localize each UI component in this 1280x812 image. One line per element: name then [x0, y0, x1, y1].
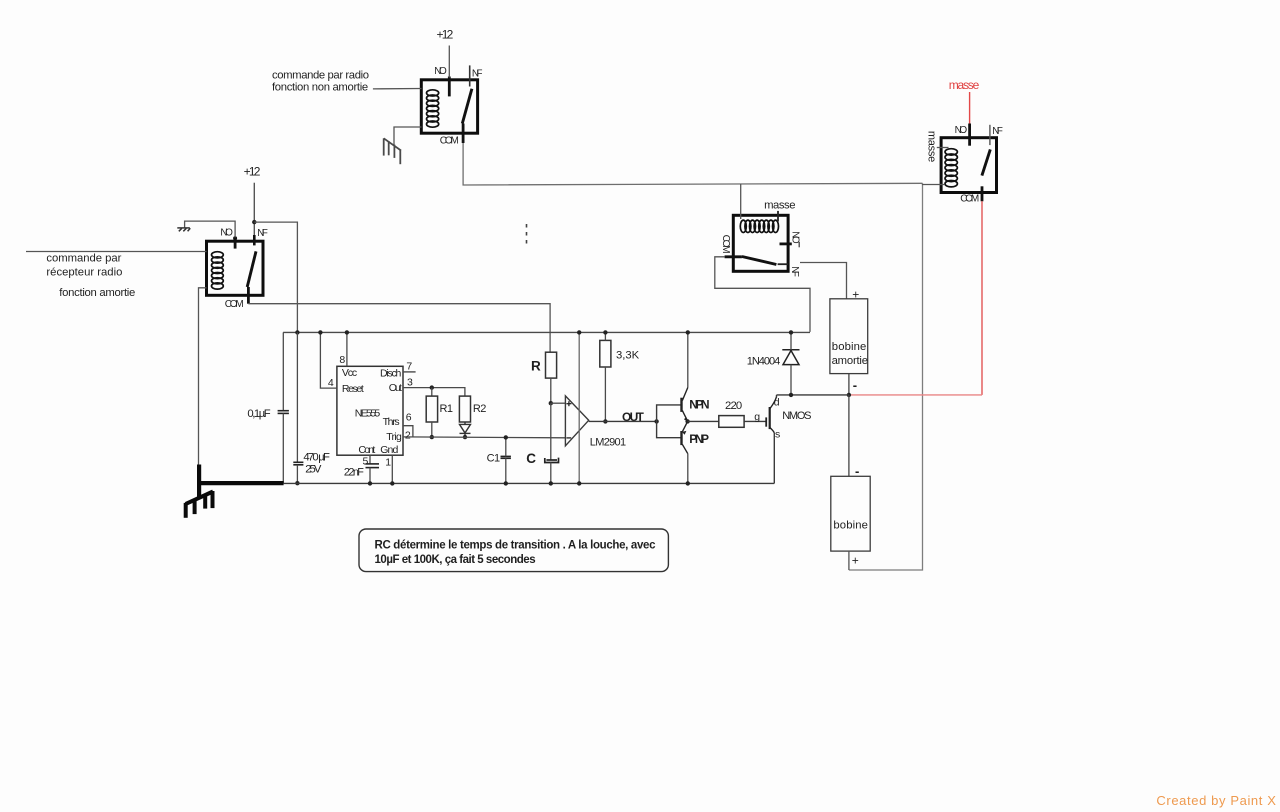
wire small ground to K1 NO: [185, 221, 236, 237]
wire C to ground rail: [550, 463, 552, 484]
wire top +12 rail: [283, 331, 810, 333]
wire R1 bottom: [431, 422, 433, 437]
svg-text:22nF: 22nF: [344, 466, 364, 478]
svg-text:220: 220: [725, 400, 742, 412]
svg-text:+: +: [852, 288, 859, 302]
wire PNP collector to ground rail: [687, 454, 689, 484]
wire drain horizontal: [777, 394, 849, 396]
svg-text:Thrs: Thrs: [383, 416, 400, 428]
wire commande radio to K2 coil: [373, 88, 422, 90]
svg-text:NE555: NE555: [355, 407, 381, 419]
svg-text:NMOS: NMOS: [782, 410, 811, 422]
svg-text:R1: R1: [440, 403, 454, 415]
transistor Q3 NMOS: [766, 397, 776, 433]
svg-text:C: C: [526, 451, 536, 466]
pin 2 wire Trig to comparator minus: [403, 436, 565, 439]
node dot C1 rail: [504, 481, 508, 485]
wire OUT: [589, 420, 657, 422]
diode D1 1N4004: [782, 350, 799, 365]
relay K1 coil: [212, 252, 224, 289]
wire diode bottom to drain: [790, 365, 792, 395]
wire 470uF branch: [296, 332, 298, 462]
wire vertical long right bus: [849, 183, 923, 570]
svg-text:6: 6: [406, 412, 412, 424]
node dot C1 trig: [504, 435, 508, 439]
wire NMOS drain up: [776, 395, 778, 397]
relay K2 coil: [427, 90, 439, 127]
wire bottom ground rail: [284, 482, 775, 484]
wire red horizontal to bobine amortie minus: [849, 394, 982, 396]
svg-text:Out: Out: [389, 382, 402, 394]
wire C1 bottom to rail: [505, 458, 507, 483]
node dot emitters: [685, 419, 689, 423]
pin 3 wire Out: [403, 388, 465, 397]
svg-text:10µF et 100K, ça fait 5 second: 10µF et 100K, ça fait 5 secondes: [375, 554, 536, 566]
thick ground feeder K1: [197, 465, 201, 498]
capacitor 22nF: [366, 464, 380, 468]
pin 7 stub Disch: [403, 371, 416, 373]
node dot 3,3K OUT: [603, 419, 607, 423]
capacitor C1: [501, 456, 511, 458]
wire bobine plus down to bus: [848, 551, 850, 570]
op-amp minus sign: [566, 437, 571, 439]
svg-text:masse: masse: [926, 131, 938, 162]
svg-text:2: 2: [405, 430, 411, 442]
diode below R2: [460, 422, 471, 437]
wire base bracket: [657, 405, 681, 438]
transistor Q1 NPN: [682, 388, 688, 421]
node dot pin4 rail: [318, 330, 322, 334]
svg-text:RC détermine le temps de trans: RC détermine le temps de transition . A …: [375, 540, 657, 552]
wire NPN collector to rail: [687, 331, 689, 387]
svg-text:Reset: Reset: [342, 383, 364, 395]
resistor R2: [459, 396, 470, 422]
wire emitters to 220: [688, 420, 719, 422]
IC NE555 box: [337, 366, 403, 455]
svg-text:Gnd: Gnd: [380, 444, 398, 456]
svg-text:7: 7: [406, 360, 412, 372]
svg-text:-: -: [853, 377, 857, 392]
wire plus node to opamp: [551, 402, 566, 404]
relay K2 NO terminal pin: [448, 77, 451, 97]
wire junction down to bobine minus: [848, 395, 850, 476]
wire bobine amortie minus to junction: [848, 374, 850, 395]
wire masse red to K4 NO: [969, 92, 971, 124]
svg-text:+12: +12: [437, 28, 454, 42]
relay K4 COM terminal pin: [981, 186, 984, 201]
ground (slanted) at K2: [384, 138, 401, 164]
svg-text:470 µF: 470 µF: [303, 451, 330, 463]
node dot diode drain: [789, 393, 793, 397]
node dot diode rail: [789, 330, 793, 334]
svg-text:fonction amortie: fonction amortie: [59, 287, 135, 299]
svg-text:1: 1: [385, 457, 391, 469]
relay K2 NF terminal pin: [469, 65, 471, 86]
svg-text:bobine: bobine: [833, 520, 868, 532]
svg-text:25V: 25V: [305, 463, 322, 475]
svg-text:g: g: [754, 411, 760, 423]
wire 470uF bottom: [296, 465, 298, 484]
node dot pin1 rail: [390, 481, 394, 485]
svg-text:COM: COM: [960, 193, 979, 204]
svg-text:LM2901: LM2901: [590, 437, 626, 449]
svg-text:3: 3: [407, 377, 413, 389]
wire commande recepteur to K1 coil: [26, 251, 207, 253]
op-amp U1 LM2901: [565, 396, 588, 446]
relay K2 switch: [462, 89, 472, 124]
svg-text:+12: +12: [244, 165, 261, 179]
pin 4 wire Reset: [320, 332, 337, 388]
wire +12 to K2 NO: [448, 46, 450, 78]
relay K3 switch: [742, 257, 777, 265]
relay K3 COM terminal pin: [725, 255, 742, 258]
wire 0,1uF bottom to ground rail: [282, 413, 284, 483]
capacitor 0,1uF: [278, 411, 289, 414]
relay K1 NO terminal pin: [234, 237, 237, 248]
resistor 220: [719, 416, 744, 428]
wire K2 coil to ground: [394, 127, 422, 145]
svg-text:Created by Paint X: Created by Paint X: [1156, 793, 1276, 808]
relay K4 NF terminal pin: [989, 125, 991, 145]
node dot pin8 rail: [345, 330, 349, 334]
node dot diode trig: [463, 435, 467, 439]
svg-text:COM: COM: [440, 136, 459, 147]
wire 0,1uF branch (rail left end down): [282, 332, 284, 410]
node dot out R1: [430, 385, 434, 389]
wire 3,3K top: [604, 332, 606, 340]
wire K1 COM to R top: [248, 304, 550, 353]
svg-text:Cont: Cont: [358, 444, 375, 456]
svg-text:Disch: Disch: [380, 367, 401, 379]
node dot R1 trig: [430, 435, 434, 439]
svg-text:masse: masse: [764, 200, 795, 212]
node dot K1 NO: [233, 236, 237, 240]
svg-text:NF: NF: [789, 266, 800, 277]
NPN emitter arrow: [684, 417, 688, 422]
ground symbol (big slanted): [186, 491, 213, 518]
svg-text:NO: NO: [220, 228, 233, 239]
relay K1 (left, fonction amortie): [207, 241, 264, 295]
pin 6 stub Thrs: [403, 426, 413, 437]
wire NMOS source down to rail: [773, 433, 775, 484]
pin 8 wire Vcc: [346, 332, 348, 366]
wire K3 COM down to +12 rail: [715, 257, 810, 332]
node dot +12 junction: [252, 220, 256, 224]
node dot PNP collector rail: [686, 481, 690, 485]
wire K1 coil bottom to ground: [199, 288, 207, 466]
relay K2 (top, fonction non amortie): [421, 80, 477, 133]
resistor R: [546, 352, 557, 378]
svg-text:NF: NF: [257, 228, 268, 239]
svg-text:fonction non amortie: fonction non amortie: [272, 82, 368, 94]
thick ground rail: [197, 481, 284, 485]
svg-text:s: s: [775, 429, 780, 441]
node dot bobine amortie junction: [847, 393, 851, 397]
relay K3 masse terminal pin: [777, 211, 779, 222]
stray mark (faint dashed): [526, 224, 528, 246]
svg-text:PNP: PNP: [689, 432, 709, 446]
svg-text:4: 4: [328, 377, 334, 389]
svg-text:commande par: commande par: [46, 252, 121, 264]
pin 5 wire Cont: [369, 455, 371, 464]
pin stub right of NO K3: [798, 242, 800, 248]
svg-text:NF: NF: [472, 68, 483, 79]
relay K3 coil (horizontal): [740, 220, 778, 232]
wire 220 to gate: [744, 420, 766, 422]
node dot OUT bracket: [654, 419, 658, 423]
wire 3,3K bottom to OUT: [604, 367, 606, 421]
svg-text:+: +: [852, 554, 859, 568]
svg-text:1N4004: 1N4004: [747, 355, 781, 367]
svg-text:OUT: OUT: [622, 410, 644, 424]
svg-text:Trig: Trig: [386, 431, 402, 443]
wire K4 coil bottom to left bus: [922, 184, 945, 186]
relay K4 switch: [982, 149, 990, 175]
svg-text:bobine: bobine: [832, 341, 867, 353]
node dot opamp V-: [577, 481, 581, 485]
wire red K4 COM down: [981, 201, 983, 395]
svg-text:masse: masse: [949, 78, 980, 92]
wire 22nF to ground rail: [369, 468, 371, 484]
resistor R1: [426, 396, 437, 422]
node dot rail x297: [295, 330, 299, 334]
svg-text:NO: NO: [955, 125, 968, 136]
node dot 3,3K rail: [603, 330, 607, 334]
svg-text:3,3K: 3,3K: [616, 349, 640, 361]
svg-text:COM: COM: [225, 299, 244, 310]
svg-text:NF: NF: [992, 126, 1003, 137]
node dot 22nF rail: [368, 481, 372, 485]
relay K4 (top right, masse): [941, 138, 996, 193]
PNP emitter arrow: [682, 431, 686, 435]
svg-text:C1: C1: [487, 453, 501, 465]
relay K3 (middle, masse): [733, 215, 788, 271]
svg-text:NO: NO: [434, 66, 447, 77]
node dot 470uF ground: [295, 481, 299, 485]
svg-text:R2: R2: [473, 403, 487, 415]
wire C1 top to trig line: [505, 437, 507, 456]
node dot plus input: [549, 401, 553, 405]
svg-text:récepteur radio: récepteur radio: [46, 266, 122, 278]
wire K2 COM long run to right: [463, 143, 922, 185]
small ground at K1: [177, 228, 190, 231]
node dot NPN collector rail: [686, 330, 690, 334]
capacitor 470uF: [293, 462, 303, 465]
wire R1 top stub: [431, 388, 433, 397]
wire drop from COM run into K3 coil: [740, 184, 742, 219]
svg-text:8: 8: [339, 354, 345, 366]
relay K4 coil: [945, 149, 957, 187]
wire op-amp power vertical: [578, 332, 580, 483]
bobine amortie box: [830, 299, 868, 374]
svg-text:amortie: amortie: [832, 355, 868, 367]
RC note box: [359, 529, 668, 572]
node dot C rail: [549, 481, 553, 485]
svg-text:-: -: [855, 463, 859, 478]
svg-text:commande par radio: commande par radio: [272, 70, 369, 82]
relay K3 NO terminal pin: [780, 242, 792, 245]
relay K1 COM terminal pin: [247, 287, 250, 304]
relay K2 COM terminal pin: [462, 124, 465, 144]
svg-text:Vcc: Vcc: [342, 367, 357, 379]
relay K1 NF terminal pin: [253, 183, 255, 236]
svg-text:NPN: NPN: [689, 397, 709, 411]
transistor Q2 PNP: [682, 421, 688, 453]
pin 1 wire Gnd: [391, 455, 393, 483]
wire masse stub to K4 coil: [937, 147, 949, 149]
svg-text:COM: COM: [720, 235, 731, 254]
wire K3 NF to bobine amortie plus: [800, 263, 847, 299]
relay K3 NF terminal pin: [778, 263, 789, 265]
relay K1 switch: [247, 251, 256, 287]
wire plus node down to C: [550, 403, 552, 460]
svg-text:d: d: [774, 396, 780, 408]
svg-text:0,1µF: 0,1µF: [247, 408, 270, 420]
wire diode top to rail: [790, 332, 792, 349]
wire R bottom to plus node: [550, 378, 552, 403]
capacitor C (polarized): [545, 458, 559, 463]
bobine box: [831, 476, 870, 551]
wire +12 junction to right drop: [254, 222, 297, 332]
node dot opamp V+: [577, 330, 581, 334]
resistor 3,3K: [600, 340, 611, 367]
svg-text:R: R: [531, 359, 541, 374]
relay K4 NO terminal pin: [968, 124, 971, 146]
op-amp plus sign: [566, 401, 571, 406]
